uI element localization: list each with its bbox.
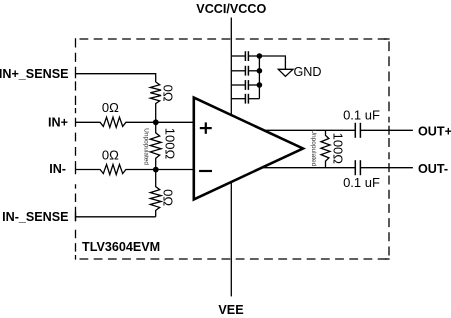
svg-text:0.1 uF: 0.1 uF [343, 175, 380, 190]
svg-text:IN-: IN- [49, 162, 66, 176]
svg-text:VEE: VEE [218, 303, 243, 317]
svg-text:TLV3604EVM: TLV3604EVM [82, 240, 160, 254]
svg-text:0Ω: 0Ω [102, 147, 119, 162]
svg-text:IN+: IN+ [48, 115, 68, 129]
svg-text:IN+_SENSE: IN+_SENSE [0, 67, 69, 81]
svg-text:VCCI/VCCO: VCCI/VCCO [196, 2, 266, 16]
svg-text:100Ω: 100Ω [162, 128, 177, 160]
svg-text:Unpopulated: Unpopulated [143, 128, 150, 165]
svg-text:IN-_SENSE: IN-_SENSE [2, 210, 69, 224]
svg-text:0Ω: 0Ω [161, 85, 176, 102]
svg-text:OUT-: OUT- [418, 162, 448, 176]
svg-text:0.1 uF: 0.1 uF [343, 107, 380, 122]
svg-text:Unpopulated: Unpopulated [310, 129, 317, 166]
svg-text:OUT+: OUT+ [418, 124, 451, 138]
svg-text:0Ω: 0Ω [161, 189, 176, 206]
svg-text:100Ω: 100Ω [331, 133, 346, 165]
svg-text:0Ω: 0Ω [102, 100, 119, 115]
svg-text:GND: GND [294, 65, 322, 79]
